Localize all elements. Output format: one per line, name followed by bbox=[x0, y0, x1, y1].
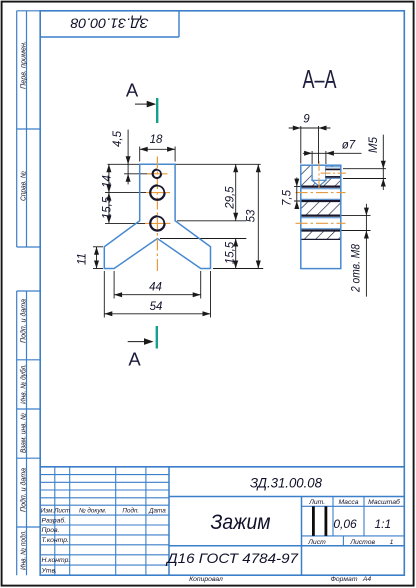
section centerline slot1 bbox=[296, 192, 346, 194]
section hatch bands bbox=[301, 165, 341, 239]
dimension 54 bbox=[104, 301, 210, 317]
hole Phi7 vertical in section bbox=[312, 164, 326, 186]
svg-text:Инв. № подл.: Инв. № подл. bbox=[18, 530, 27, 570]
section arrow bottom bbox=[128, 338, 154, 345]
title block header texts bbox=[41, 506, 166, 514]
svg-text:7,5: 7,5 bbox=[282, 189, 294, 206]
svg-text:Пров.: Пров. bbox=[42, 527, 60, 534]
svg-text:1: 1 bbox=[390, 539, 394, 546]
dimension 7,5 bbox=[282, 178, 300, 210]
section arrow top bbox=[135, 101, 156, 108]
svg-text:54: 54 bbox=[150, 301, 163, 313]
dimension 2 otv. M8 bbox=[351, 204, 369, 297]
extension line arm junction right bbox=[177, 220, 246, 222]
svg-text:Масса: Масса bbox=[338, 499, 358, 506]
label Inv. No podl. bbox=[18, 530, 27, 570]
dimension 44 bbox=[114, 282, 201, 298]
hole M5 horizontal in section bbox=[325, 167, 341, 179]
label Sprav. No bbox=[18, 171, 27, 201]
section plane tick top bbox=[156, 98, 158, 123]
svg-text:Д16 ГОСТ 4784-97: Д16 ГОСТ 4784-97 bbox=[165, 550, 299, 566]
material bbox=[165, 550, 299, 566]
svg-text:18: 18 bbox=[150, 134, 163, 146]
dimension 29,5 bbox=[225, 164, 239, 221]
dimension Phi7 bbox=[303, 140, 362, 165]
lit massa masshtab headers bbox=[308, 498, 401, 506]
masshtab value bbox=[374, 517, 391, 531]
list row texts bbox=[307, 539, 393, 546]
part name Zazhim bbox=[211, 510, 271, 534]
designation text bbox=[250, 476, 322, 492]
svg-text:15,5: 15,5 bbox=[225, 241, 237, 264]
section band C bottom edge bbox=[301, 238, 341, 240]
dimension 15,5 right bbox=[225, 239, 239, 269]
svg-text:Подп. и дата: Подп. и дата bbox=[18, 299, 27, 343]
dimension 11 bbox=[77, 247, 100, 269]
svg-text:2 отв. М8: 2 отв. М8 bbox=[351, 243, 363, 292]
section M8 slot lower bbox=[301, 216, 371, 231]
kopiroval / format bbox=[189, 576, 371, 583]
top designation text rotated 180 bbox=[70, 15, 148, 31]
svg-text:Дата: Дата bbox=[148, 507, 166, 514]
svg-text:Взам. инв. №: Взам. инв. № bbox=[18, 413, 27, 453]
svg-text:Подп. и дата: Подп. и дата bbox=[18, 468, 27, 512]
svg-text:Зажим: Зажим bbox=[211, 510, 271, 534]
dimension 14 bbox=[102, 164, 114, 192]
svg-text:9: 9 bbox=[303, 114, 310, 126]
svg-text:А4: А4 bbox=[362, 576, 372, 583]
left margin column strip top (Perv. primen / Sprav No) bbox=[17, 11, 41, 247]
svg-text:А: А bbox=[128, 349, 141, 370]
svg-text:ø7: ø7 bbox=[342, 140, 356, 152]
title block grid bbox=[40, 467, 404, 575]
svg-text:44: 44 bbox=[149, 282, 162, 294]
extension lines dim 18 bbox=[140, 147, 175, 162]
svg-text:Справ. №: Справ. № bbox=[18, 171, 27, 201]
svg-text:53: 53 bbox=[246, 209, 258, 222]
dimension 18 bbox=[140, 134, 175, 152]
svg-text:Подп.: Подп. bbox=[122, 506, 139, 514]
svg-text:ЗД.31.00.08: ЗД.31.00.08 bbox=[250, 476, 322, 492]
svg-text:А: А bbox=[126, 80, 139, 101]
left margin column strip bottom bbox=[17, 291, 41, 575]
section M8 slot upper bbox=[294, 187, 341, 201]
section centerline slot2 bbox=[296, 222, 346, 224]
label Podp. i data (upper) bbox=[18, 299, 27, 343]
extension line foot bottom right bbox=[213, 268, 263, 270]
section centerline Phi7 vertical bbox=[318, 161, 320, 190]
svg-text:Изм.: Изм. bbox=[41, 507, 54, 514]
label Inv. No dubl. bbox=[18, 364, 27, 404]
dimension 53 bbox=[246, 164, 261, 268]
svg-text:Лит.: Лит. bbox=[308, 499, 325, 506]
hole centerline crosses bbox=[145, 174, 171, 224]
massa value bbox=[333, 517, 357, 531]
extension line notch apex right bbox=[160, 238, 246, 240]
letter A top bbox=[126, 80, 139, 101]
row labels bbox=[41, 516, 71, 574]
svg-text:Копировал: Копировал bbox=[189, 576, 223, 583]
svg-text:№ докум.: № докум. bbox=[79, 506, 107, 514]
hole M8 middle bbox=[150, 185, 166, 201]
label Podp. i data (lower) bbox=[18, 468, 27, 512]
part outline main view bbox=[104, 164, 210, 268]
svg-text:4,5: 4,5 bbox=[112, 130, 124, 147]
extension lines dim 54 bbox=[104, 271, 210, 318]
svg-text:Разраб.: Разраб. bbox=[42, 516, 67, 524]
section plane tick bottom bbox=[156, 326, 158, 349]
section centerline M5 horizontal bbox=[321, 172, 346, 174]
svg-text:Н.контр.: Н.контр. bbox=[42, 557, 71, 564]
dimension 15,5 left bbox=[102, 193, 114, 224]
svg-text:11: 11 bbox=[77, 253, 89, 265]
extension line stem top level bbox=[108, 163, 261, 165]
svg-text:Листов: Листов bbox=[349, 539, 375, 546]
section title A-A bbox=[303, 64, 337, 94]
label Vzam. inv. No bbox=[18, 413, 27, 453]
dimension 4,5 bbox=[112, 130, 131, 185]
dimension 9 bbox=[289, 114, 331, 164]
hole M8 bottom bbox=[150, 216, 166, 232]
svg-text:15,5: 15,5 bbox=[102, 196, 114, 219]
extension line bottom hole axis bbox=[105, 222, 146, 224]
svg-text:Т.контр.: Т.контр. bbox=[42, 537, 70, 544]
extension line foot bottom left bbox=[93, 268, 103, 270]
svg-text:ЗД.31.00.08: ЗД.31.00.08 bbox=[70, 15, 148, 31]
svg-text:29,5: 29,5 bbox=[225, 186, 237, 210]
extension line middle hole axis bbox=[105, 192, 147, 194]
hole M5 top bbox=[152, 169, 162, 179]
svg-text:Перв. примен.: Перв. примен. bbox=[18, 41, 27, 89]
svg-text:Формат: Формат bbox=[331, 576, 358, 583]
letter A bottom bbox=[128, 349, 141, 370]
top designation stamp box bbox=[40, 11, 179, 37]
svg-text:М5: М5 bbox=[368, 136, 380, 153]
svg-text:А–А: А–А bbox=[303, 64, 337, 94]
svg-text:Лист: Лист bbox=[307, 539, 326, 546]
svg-text:0,06: 0,06 bbox=[333, 517, 357, 531]
stem centerline bbox=[156, 157, 158, 274]
extension line outer corner left bbox=[93, 246, 103, 248]
extension line top hole axis bbox=[124, 173, 153, 175]
svg-text:Масштаб: Масштаб bbox=[368, 498, 401, 506]
Lit cell black dividers bbox=[313, 506, 326, 536]
svg-text:1:1: 1:1 bbox=[374, 517, 391, 531]
svg-text:Инв. № дубл.: Инв. № дубл. bbox=[18, 364, 27, 404]
svg-text:Лист: Лист bbox=[53, 507, 70, 514]
section bar outline bbox=[301, 165, 341, 268]
svg-text:14: 14 bbox=[102, 175, 114, 188]
svg-text:Утв.: Утв. bbox=[41, 567, 58, 574]
extension lines dim 44 bbox=[114, 271, 201, 299]
dimension M5 bbox=[343, 135, 386, 190]
label Perv. primen. bbox=[18, 41, 27, 89]
